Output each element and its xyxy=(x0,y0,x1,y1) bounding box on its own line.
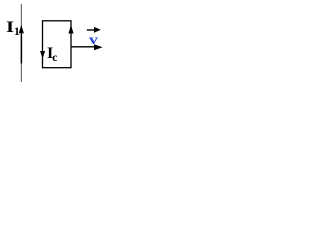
loop current arrowhead down on left edge xyxy=(40,51,45,59)
label v xyxy=(89,33,98,47)
vector arrow over v: shaft xyxy=(87,29,95,31)
label I1 xyxy=(6,20,20,38)
vector arrow over v: head xyxy=(94,27,101,33)
velocity arrow shaft xyxy=(71,46,95,48)
velocity arrowhead (right) xyxy=(94,44,103,50)
loop (rectangular loop) xyxy=(43,21,72,68)
wire current arrow shaft I1 xyxy=(20,28,22,64)
wire current arrowhead I1 (up) xyxy=(19,25,24,33)
label Ic xyxy=(47,46,57,64)
wire (long straight vertical wire at left) xyxy=(20,4,22,82)
loop current arrowhead up on right edge xyxy=(68,25,73,34)
